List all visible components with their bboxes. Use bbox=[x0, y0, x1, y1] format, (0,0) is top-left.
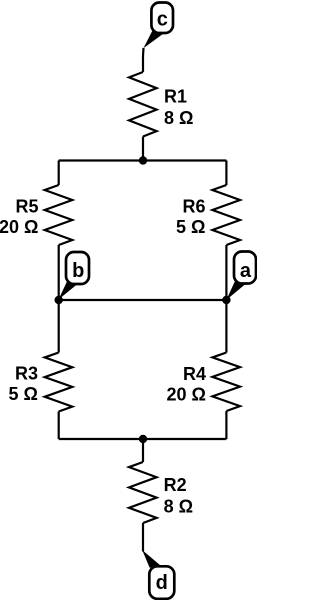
node b bbox=[66, 252, 89, 284]
node junction bottom bbox=[139, 435, 147, 443]
node b junction bbox=[55, 296, 63, 304]
wire bbox=[225, 161, 227, 186]
svg-text:20 Ω: 20 Ω bbox=[0, 217, 39, 237]
wire bbox=[59, 438, 227, 440]
wire bbox=[58, 412, 60, 440]
node a junction bbox=[222, 296, 230, 304]
svg-text:R5: R5 bbox=[15, 196, 38, 216]
svg-text:a: a bbox=[240, 260, 252, 282]
node c bbox=[151, 3, 173, 34]
wire bbox=[59, 159, 227, 161]
svg-text:c: c bbox=[157, 8, 168, 30]
resistor R1 bbox=[129, 72, 157, 137]
label R3 value bbox=[9, 364, 38, 404]
label R1 value bbox=[164, 87, 193, 128]
node junction top bbox=[139, 156, 147, 164]
svg-text:5 Ω: 5 Ω bbox=[176, 217, 205, 237]
svg-text:b: b bbox=[72, 260, 84, 282]
svg-text:8 Ω: 8 Ω bbox=[164, 108, 193, 128]
wire bbox=[225, 411, 227, 439]
node c pointer bbox=[143, 30, 164, 48]
resistor R2 bbox=[129, 462, 157, 523]
wire bbox=[142, 48, 145, 72]
wire bbox=[58, 161, 60, 186]
wire bbox=[225, 245, 227, 300]
wire bbox=[142, 137, 144, 161]
svg-text:R1: R1 bbox=[164, 87, 187, 107]
wire bbox=[59, 299, 227, 301]
wire bbox=[58, 300, 60, 353]
label R2 value bbox=[164, 475, 193, 517]
svg-text:20 Ω: 20 Ω bbox=[167, 384, 206, 404]
label R4 value bbox=[167, 364, 206, 404]
wire bbox=[142, 439, 144, 462]
node d pointer bbox=[142, 550, 163, 568]
label R5 value bbox=[0, 196, 39, 237]
label R6 value bbox=[176, 196, 205, 237]
svg-text:R4: R4 bbox=[183, 364, 206, 384]
node a bbox=[234, 252, 256, 284]
svg-text:R3: R3 bbox=[15, 364, 38, 384]
resistor R6 bbox=[212, 185, 240, 245]
node b pointer bbox=[59, 282, 78, 300]
node d bbox=[149, 566, 174, 599]
wire bbox=[58, 245, 60, 300]
resistor R5 bbox=[45, 185, 73, 245]
resistor R3 bbox=[45, 353, 73, 412]
svg-text:R2: R2 bbox=[164, 475, 187, 495]
svg-text:R6: R6 bbox=[182, 196, 205, 216]
svg-text:8 Ω: 8 Ω bbox=[164, 497, 193, 517]
node a pointer bbox=[226, 281, 245, 300]
resistor R4 bbox=[212, 353, 240, 412]
wire bbox=[225, 300, 227, 353]
wire bbox=[142, 523, 144, 552]
svg-text:d: d bbox=[156, 572, 168, 594]
svg-text:5 Ω: 5 Ω bbox=[9, 384, 38, 404]
